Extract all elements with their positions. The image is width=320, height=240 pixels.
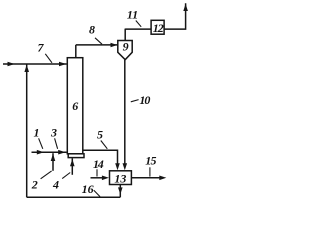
svg-text:11: 11	[127, 7, 138, 21]
label 5 leader	[101, 141, 108, 149]
column vessel 6	[67, 58, 83, 154]
arrowhead line 8 into cyclone	[111, 43, 118, 47]
wire feed line 1-3	[32, 151, 67, 153]
svg-text:5: 5	[97, 127, 103, 141]
svg-text:10: 10	[139, 93, 150, 107]
wire cyclone downcomer 10	[124, 60, 126, 165]
svg-text:16: 16	[82, 182, 94, 196]
box 12	[151, 20, 164, 34]
arrowhead feed into column	[59, 62, 66, 67]
arrowhead stream 14 into box 13	[102, 176, 109, 181]
wire feed line 7	[3, 63, 67, 65]
wire stream 2 vertical	[52, 153, 54, 171]
arrowhead stream 2 up	[51, 154, 56, 161]
label 4 leader	[62, 173, 70, 179]
svg-text:2: 2	[31, 178, 38, 192]
label 14 leader	[96, 169, 98, 176]
label 2 leader	[41, 171, 52, 179]
arrowhead recycle up into feed	[24, 65, 29, 72]
wire stream 15	[131, 177, 160, 179]
wire stream 14	[91, 177, 104, 179]
label 11 leader	[136, 21, 141, 27]
svg-text:4: 4	[52, 178, 59, 192]
label 16 leader	[94, 190, 100, 196]
arrowhead on feed line left	[8, 62, 15, 67]
svg-text:8: 8	[89, 23, 95, 37]
label 1 leader	[39, 138, 43, 149]
svg-text:9: 9	[123, 39, 129, 53]
svg-text:13: 13	[114, 171, 126, 185]
svg-text:15: 15	[145, 153, 156, 167]
wire recycle riser	[26, 64, 28, 197]
label 15 leader	[149, 167, 151, 176]
svg-text:12: 12	[153, 21, 164, 35]
wire overhead line 8	[76, 44, 118, 46]
wire line 11	[125, 28, 151, 30]
svg-text:7: 7	[38, 41, 45, 55]
arrowhead line 5 into box 13	[115, 163, 120, 170]
wire recycle bottom	[27, 196, 121, 198]
svg-text:14: 14	[93, 157, 104, 171]
svg-text:1: 1	[34, 126, 40, 140]
wire stream 4 vertical	[71, 158, 73, 175]
arrowhead up top right	[183, 4, 188, 11]
wire stub below box 13	[119, 185, 121, 198]
cyclone 9	[118, 41, 132, 60]
wire column top stub	[75, 45, 77, 58]
label 7 leader	[45, 54, 52, 63]
wire bottoms line 5	[83, 150, 118, 164]
label 10 leader	[131, 100, 139, 102]
svg-text:6: 6	[72, 99, 78, 113]
box 13	[110, 171, 132, 185]
arrowhead down from box 13	[118, 187, 123, 194]
arrowhead line 10 into box 13	[123, 163, 128, 170]
label 3 leader	[55, 138, 58, 149]
arrowhead stream 15 out	[159, 176, 166, 181]
svg-text:3: 3	[50, 126, 57, 140]
column bottom cap	[68, 154, 84, 158]
arrowhead stream 4 up	[70, 159, 75, 166]
label 8 leader	[95, 38, 102, 44]
wire from box 12 to top right	[164, 3, 186, 29]
arrowhead stream 3 into column	[58, 150, 65, 155]
arrowhead stream 1	[37, 150, 44, 155]
wire cyclone top stub	[124, 29, 126, 41]
